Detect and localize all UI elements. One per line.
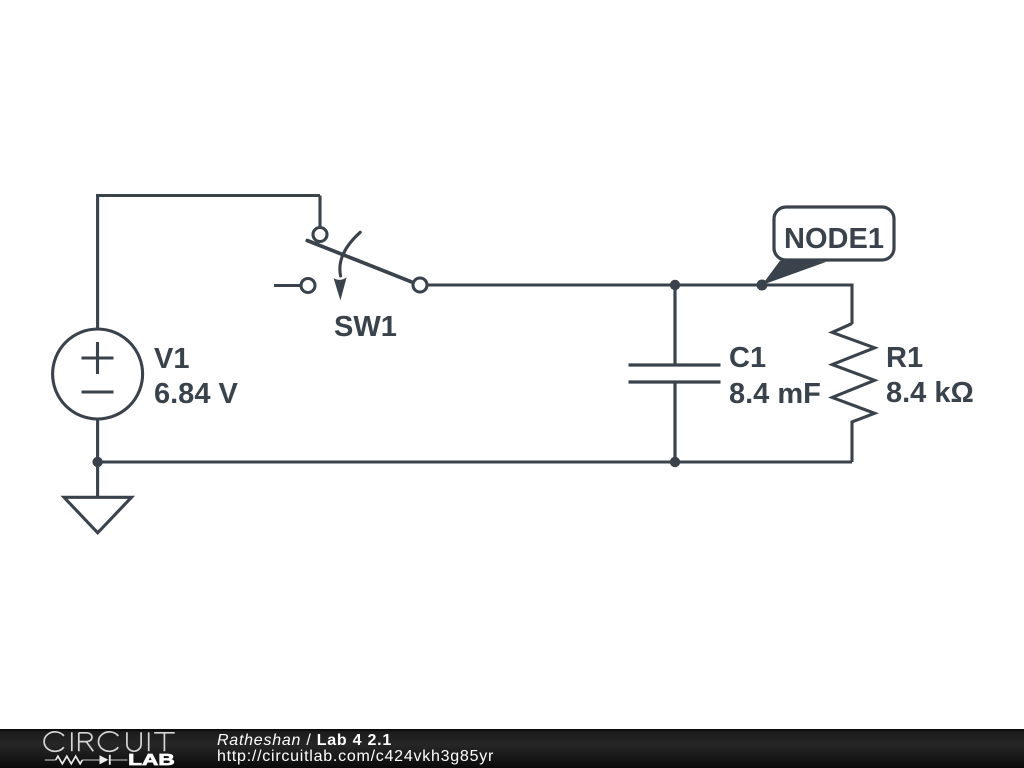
wire V1 bottom lead xyxy=(96,419,99,498)
svg-text:8.4 kΩ: 8.4 kΩ xyxy=(886,377,974,409)
value 8.4 mF xyxy=(729,378,821,410)
junction dot at ground xyxy=(92,457,102,467)
wire top-left horizontal xyxy=(96,194,320,197)
value 6.84 V xyxy=(154,378,238,410)
value 8.4 kOhm xyxy=(886,377,974,409)
node NODE1 flag pointer xyxy=(762,261,827,285)
voltage source V1 xyxy=(53,329,143,419)
svg-text:6.84 V: 6.84 V xyxy=(154,378,238,410)
junction dot at C1 top xyxy=(670,280,680,290)
wire left vertical to V1 xyxy=(96,194,99,330)
wire bottom rail xyxy=(98,460,852,463)
node NODE1 flag box xyxy=(774,207,894,260)
wire switch feed vertical xyxy=(318,196,321,227)
resistor R1 xyxy=(832,324,874,462)
CircuitLab logo xyxy=(0,728,210,768)
svg-text:C1: C1 xyxy=(729,342,766,374)
wire switch output to node xyxy=(429,283,853,286)
label SW1 xyxy=(334,311,397,343)
switch SW1 xyxy=(301,228,427,301)
label V1 xyxy=(154,343,189,375)
capacitor C1 xyxy=(629,285,721,462)
node NODE1 label xyxy=(784,223,884,255)
junction dot at C1 bottom xyxy=(670,457,680,467)
wire R1 top lead xyxy=(850,284,853,325)
svg-text:LAB: LAB xyxy=(128,752,175,768)
svg-text:SW1: SW1 xyxy=(334,311,397,343)
footer bar xyxy=(0,729,1024,768)
svg-text:8.4 mF: 8.4 mF xyxy=(729,378,821,410)
footer text xyxy=(217,733,494,764)
svg-text:R1: R1 xyxy=(886,342,923,374)
node NODE1 dot xyxy=(757,280,768,291)
svg-text:NODE1: NODE1 xyxy=(784,223,884,255)
ground xyxy=(64,497,132,533)
wire switch left stub xyxy=(274,284,300,287)
svg-text:V1: V1 xyxy=(154,343,189,375)
label C1 xyxy=(729,342,766,374)
label R1 xyxy=(886,342,923,374)
